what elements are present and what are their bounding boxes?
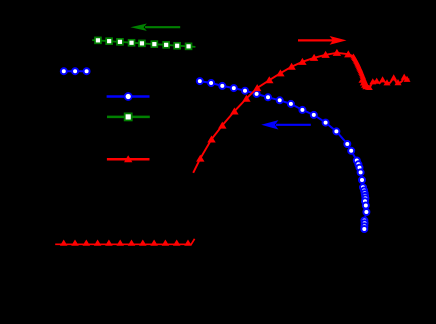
green squares series markers: [95, 37, 192, 49]
red bottom flat series line: [55, 239, 194, 245]
blue left segment line: [64, 70, 87, 72]
red bottom flat series markers: [60, 240, 192, 246]
blue main curve markers: [197, 78, 370, 232]
blue left arrow: [261, 120, 311, 129]
legend green entry: [107, 113, 150, 120]
green squares series line: [92, 40, 195, 47]
red rising curve markers: [196, 49, 410, 162]
blue left segment markers: [61, 68, 90, 74]
red rising curve line: [193, 53, 409, 173]
red right arrow: [298, 36, 347, 45]
blue main curve line: [200, 81, 367, 229]
legend red entry: [107, 155, 150, 162]
legend blue entry: [107, 93, 150, 100]
green left arrow: [131, 24, 181, 31]
